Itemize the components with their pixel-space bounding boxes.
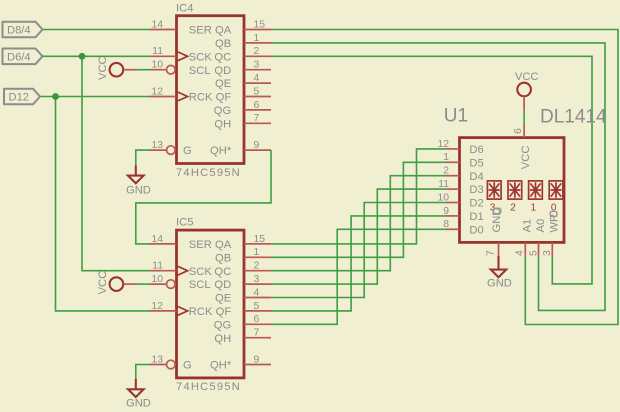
svg-text:SCK: SCK	[189, 266, 213, 278]
svg-text:8: 8	[443, 219, 449, 230]
svg-text:3: 3	[542, 250, 553, 256]
IC5 pin 5 QF	[216, 301, 271, 318]
net flag D6/4	[3, 49, 43, 65]
IC4 pin 12 RCK	[150, 86, 213, 103]
svg-text:1: 1	[443, 152, 449, 163]
svg-text:A0: A0	[535, 219, 547, 233]
IC4 pin 14 SER	[150, 19, 212, 36]
IC5 pin 14 SER	[150, 234, 212, 251]
svg-text:15: 15	[254, 234, 266, 245]
svg-text:12: 12	[151, 301, 163, 312]
svg-text:11: 11	[438, 179, 449, 190]
junction on net D6/4	[79, 53, 86, 60]
svg-text:D3: D3	[469, 184, 483, 196]
IC4 74HC595N shift register	[176, 2, 244, 179]
VCC symbol above U1	[515, 71, 539, 110]
svg-text:SCL: SCL	[189, 65, 211, 77]
svg-text:3: 3	[254, 60, 260, 71]
wire VCC to U1 pin 6	[523, 110, 525, 124]
svg-text:9: 9	[254, 354, 260, 365]
wire IC5 QB to U1 D5	[271, 162, 446, 257]
svg-text:QH: QH	[214, 118, 231, 130]
IC5 pin 1 QB	[215, 247, 271, 264]
ground symbol below U1	[487, 256, 512, 290]
IC4 pin 3 QD	[214, 60, 271, 77]
wire VCC to IC5 SCL	[137, 283, 150, 285]
IC5 74HC595N shift register	[176, 217, 244, 394]
svg-text:7: 7	[254, 113, 260, 124]
IC5 pin 10 SCL	[150, 274, 211, 291]
IC5 pin 3 QD	[214, 274, 271, 291]
svg-text:14: 14	[151, 234, 163, 245]
U1 pin 6 VCC	[513, 124, 532, 169]
net flag D8/4	[3, 22, 43, 38]
svg-text:GND: GND	[487, 278, 512, 290]
ground symbol below IC4	[126, 165, 151, 196]
svg-text:IC4: IC4	[176, 2, 193, 14]
svg-text:U1: U1	[444, 106, 468, 127]
svg-text:D6/4: D6/4	[7, 52, 31, 64]
IC4 pin 4 QE	[215, 73, 271, 90]
net flag D12	[4, 89, 40, 105]
svg-text:1: 1	[531, 202, 537, 213]
svg-text:G: G	[183, 360, 192, 372]
wire net D6/4 branch to IC5 SCK	[82, 56, 150, 270]
wire VCC to IC4 SCL	[137, 69, 150, 71]
wire net D8/4 to IC4 SER	[43, 29, 150, 31]
svg-text:QF: QF	[216, 306, 232, 318]
IC5 pin 7 QH	[214, 328, 271, 345]
IC4 pin 5 QF	[216, 86, 271, 103]
svg-text:IC5: IC5	[176, 217, 193, 229]
IC4 pin 1 QB	[215, 33, 271, 50]
svg-text:SER: SER	[189, 239, 212, 251]
VCC symbol at IC5 SCL	[97, 271, 137, 295]
wire IC5 QG to U1 D0	[271, 229, 446, 324]
svg-text:12: 12	[151, 86, 163, 97]
VCC symbol at IC4 SCL	[97, 56, 137, 80]
svg-text:6: 6	[254, 100, 260, 111]
svg-text:VCC: VCC	[515, 71, 539, 83]
display digit window 0	[549, 181, 563, 214]
svg-text:QH*: QH*	[210, 360, 232, 372]
IC4 pin 9 QH*	[210, 140, 271, 157]
U1 pin 7 GND	[486, 208, 504, 256]
display digit window 1	[529, 181, 543, 214]
wire net D12 to IC4 RCK	[40, 96, 150, 98]
svg-text:QC: QC	[214, 51, 231, 63]
wire IC5 QD to U1 D3	[271, 189, 446, 284]
svg-text:QD: QD	[214, 279, 231, 291]
svg-text:9: 9	[443, 206, 449, 217]
IC4 pin 10 SCL	[150, 60, 211, 77]
junction on net D12	[52, 93, 59, 100]
U1 pin 2 D4	[443, 166, 483, 183]
svg-text:QE: QE	[215, 78, 231, 90]
svg-text:10: 10	[151, 60, 163, 71]
svg-text:SCK: SCK	[189, 51, 213, 63]
IC5 pin 4 QE	[215, 287, 271, 304]
svg-text:2: 2	[443, 166, 449, 177]
svg-text:GND: GND	[126, 398, 151, 410]
wire IC4 QC to U1 WR	[271, 56, 592, 284]
svg-text:5: 5	[254, 86, 260, 97]
U1 pin 10 D2	[437, 192, 483, 209]
svg-text:RCK: RCK	[189, 306, 213, 318]
svg-text:7: 7	[486, 250, 497, 256]
svg-text:QF: QF	[216, 92, 232, 104]
svg-text:10: 10	[151, 274, 163, 285]
svg-text:4: 4	[515, 250, 526, 256]
svg-text:D0: D0	[469, 224, 483, 236]
U1 pin 3 WR	[542, 211, 560, 256]
svg-text:5: 5	[254, 301, 260, 312]
IC5 pin 12 RCK	[150, 301, 213, 318]
svg-text:RCK: RCK	[189, 92, 213, 104]
svg-text:3: 3	[254, 274, 260, 285]
wire IC4 QA to U1 A1	[271, 30, 618, 325]
svg-text:QB: QB	[215, 252, 231, 264]
IC4 pin 11 SCK	[150, 46, 213, 63]
wire IC5 G to ground	[136, 365, 150, 380]
IC5 pin 15 QA	[215, 234, 271, 251]
svg-text:2: 2	[510, 202, 516, 213]
svg-text:9: 9	[254, 140, 260, 151]
svg-text:QH*: QH*	[210, 145, 232, 157]
svg-text:1: 1	[254, 247, 260, 258]
svg-text:2: 2	[254, 46, 260, 57]
svg-text:G: G	[183, 145, 192, 157]
svg-text:D12: D12	[9, 92, 30, 104]
svg-text:D6: D6	[469, 144, 483, 156]
U1 pin 5 A0	[528, 219, 547, 256]
ground symbol below IC5	[126, 379, 151, 410]
U1 pin 1 D5	[443, 152, 483, 169]
wire IC5 QE to U1 D2	[271, 203, 446, 298]
svg-text:2: 2	[254, 261, 260, 272]
svg-text:1: 1	[254, 33, 260, 44]
U1 pin 12 D6	[437, 139, 483, 156]
U1 pin 4 A1	[515, 219, 534, 256]
svg-text:D5: D5	[469, 157, 483, 169]
svg-text:A1: A1	[522, 219, 534, 233]
IC5 pin 9 QH*	[210, 354, 271, 371]
display digit window 2	[508, 181, 522, 214]
U1 pin 11 D3	[438, 179, 484, 196]
svg-text:11: 11	[152, 261, 163, 272]
svg-text:6: 6	[513, 128, 524, 134]
svg-text:13: 13	[151, 354, 163, 365]
svg-text:D1: D1	[469, 211, 483, 223]
svg-text:QG: QG	[214, 105, 231, 117]
IC4 pin 2 QC	[214, 46, 271, 63]
svg-text:QG: QG	[214, 319, 231, 331]
svg-text:QC: QC	[214, 266, 231, 278]
svg-text:74HC595N: 74HC595N	[176, 381, 241, 393]
svg-text:VCC: VCC	[520, 146, 532, 170]
wire IC4 QH* to IC5 SER	[136, 150, 271, 244]
IC5 pin 2 QC	[214, 261, 271, 278]
U1 pin 8 D0	[443, 219, 483, 236]
svg-text:QE: QE	[215, 293, 231, 305]
IC4 pin 13 G	[150, 140, 192, 157]
wire IC5 QC to U1 D4	[271, 176, 446, 271]
svg-text:10: 10	[437, 192, 449, 203]
svg-text:11: 11	[152, 46, 163, 57]
wire net D6/4 to IC4 SCK	[43, 55, 150, 57]
svg-text:5: 5	[528, 250, 539, 256]
svg-text:QB: QB	[215, 38, 231, 50]
wire IC5 QF to U1 D1	[271, 216, 446, 311]
svg-text:D2: D2	[469, 198, 483, 210]
svg-text:4: 4	[254, 287, 260, 298]
display digit window 3	[487, 181, 501, 214]
svg-text:GND: GND	[126, 185, 151, 197]
IC5 pin 6 QG	[214, 314, 271, 331]
svg-text:VCC: VCC	[97, 271, 109, 295]
IC5 pin 11 SCK	[150, 261, 213, 278]
U1 pin 9 D1	[443, 206, 483, 223]
svg-text:7: 7	[254, 328, 260, 339]
IC4 pin 15 QA	[215, 19, 271, 36]
svg-text:QA: QA	[215, 239, 232, 251]
svg-text:14: 14	[151, 19, 163, 30]
svg-text:VCC: VCC	[97, 56, 109, 80]
svg-text:SCL: SCL	[189, 279, 211, 291]
svg-text:D8/4: D8/4	[7, 25, 31, 37]
svg-text:D4: D4	[469, 171, 483, 183]
svg-text:DL1414: DL1414	[540, 107, 607, 128]
wire IC4 QB to U1 A0	[271, 43, 605, 311]
IC4 pin 7 QH	[214, 113, 271, 130]
wire IC4 G to ground	[136, 150, 150, 165]
IC5 pin 13 G	[150, 354, 192, 371]
svg-text:12: 12	[437, 139, 449, 150]
svg-text:QD: QD	[214, 65, 231, 77]
svg-text:QA: QA	[215, 25, 232, 37]
U1 DL1414 display	[444, 106, 607, 243]
svg-text:74HC595N: 74HC595N	[176, 167, 241, 179]
svg-text:6: 6	[254, 314, 260, 325]
svg-text:QH: QH	[214, 333, 231, 345]
svg-text:13: 13	[151, 140, 163, 151]
IC4 pin 6 QG	[214, 100, 271, 117]
svg-text:4: 4	[254, 73, 260, 84]
wire net D12 branch to IC5 RCK	[56, 97, 150, 311]
svg-text:SER: SER	[189, 25, 212, 37]
wire IC5 QA to U1 D6	[271, 149, 446, 244]
svg-text:15: 15	[254, 19, 266, 30]
